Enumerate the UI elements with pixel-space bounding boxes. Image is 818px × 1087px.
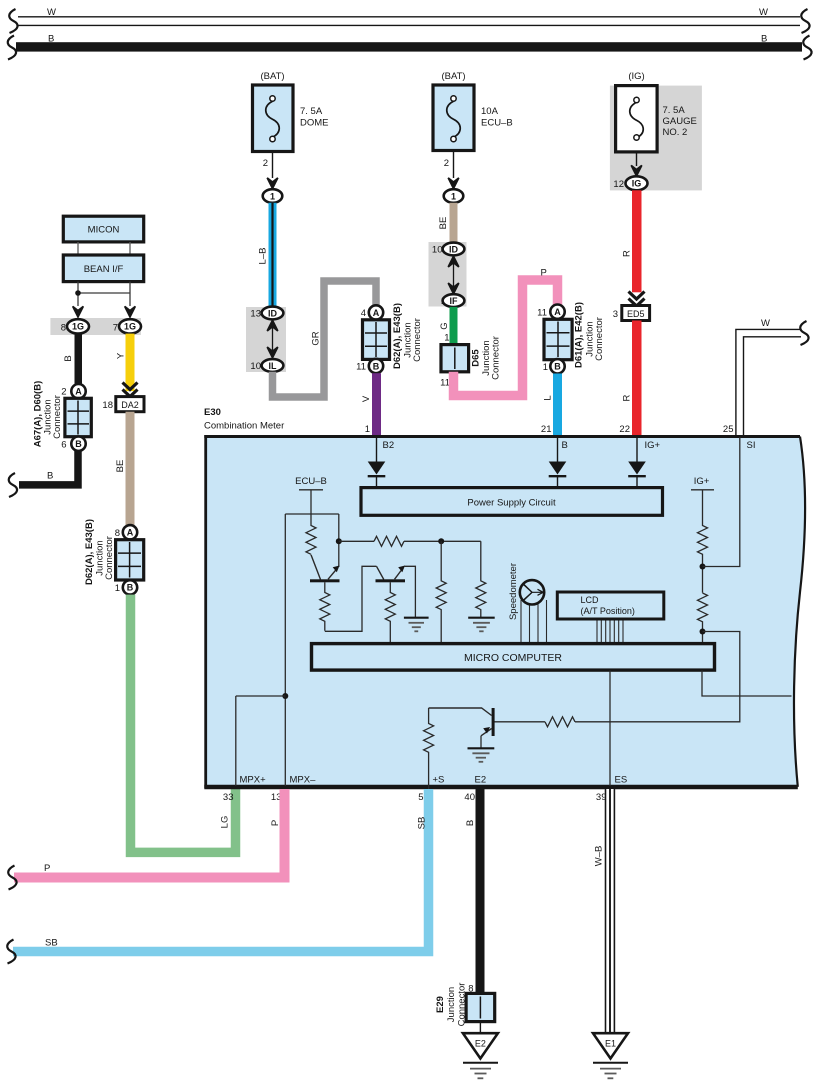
svg-text:Connector: Connector (457, 983, 468, 1027)
double arrow into ED5 (629, 292, 645, 307)
svg-text:1G: 1G (72, 322, 84, 332)
block BEAN I/F (63, 255, 143, 282)
junction connector E29 label (435, 983, 468, 1027)
svg-text:L: L (543, 395, 554, 400)
resistor R7 IG+ chain (698, 490, 708, 593)
wire P (pink) D65 to D61 (454, 280, 558, 396)
junction connector D62(A),E43(B) right box (363, 320, 390, 360)
svg-text:P: P (270, 820, 281, 826)
ground E2 hatch (463, 1063, 498, 1079)
connector ED5 box (622, 306, 650, 321)
wires MICON to BEAN I/F (78, 242, 130, 255)
svg-text:13: 13 (250, 309, 261, 320)
wire B (black) to left break (19, 451, 78, 485)
svg-text:R: R (622, 394, 633, 401)
ground E2 triangle (463, 1033, 498, 1058)
wire R (red) upper (632, 190, 642, 292)
connector pin oval ID (262, 307, 284, 320)
svg-text:7. 5A: 7. 5A (300, 106, 323, 117)
svg-text:1: 1 (365, 424, 370, 435)
svg-text:B: B (75, 439, 82, 449)
wire fuse DOME to connector 1 (272, 152, 274, 179)
svg-text:8: 8 (61, 323, 66, 334)
svg-text:33: 33 (223, 792, 234, 803)
junction connector A67(A),D60(B) box (65, 398, 91, 436)
combination meter bottom edge (204, 785, 798, 789)
svg-text:DA2: DA2 (121, 400, 139, 410)
svg-text:LCD: LCD (581, 595, 600, 605)
svg-text:E2: E2 (475, 1039, 486, 1049)
wire micro computer to torn edge (702, 670, 792, 696)
wire break squiggle W (SI wire) (800, 321, 808, 345)
junction connector D62(A),E43(B) left box (116, 540, 144, 580)
svg-text:P: P (541, 268, 547, 279)
svg-text:B: B (47, 471, 53, 482)
svg-text:GAUGE: GAUGE (663, 116, 697, 127)
wire V (violet) to pin 1 (372, 373, 381, 437)
junction connector A67(A),D60(B) label (33, 381, 64, 448)
diode D1 at B2 (368, 437, 386, 488)
svg-text:(A/T Position): (A/T Position) (581, 606, 635, 616)
svg-text:V: V (361, 395, 372, 402)
connector pin B of D62(A),E43(B) left (123, 580, 137, 594)
connector pin oval IF (443, 294, 465, 307)
svg-text:Connector: Connector (52, 395, 63, 439)
wire GR (gray) (273, 281, 377, 397)
wire B (black) 1G to A (75, 334, 83, 385)
svg-text:+S: +S (433, 775, 445, 786)
connector pin B of A67(A),D60(B) (71, 437, 85, 451)
ground G3 at Q3 emitter (468, 748, 495, 762)
wire B (black) pin 40 to E29 (476, 789, 485, 994)
arrow up into ID (448, 256, 459, 267)
svg-text:18: 18 (102, 400, 113, 411)
wire ECU-B rail horizontal (285, 513, 339, 515)
junction connector D65 label (471, 336, 502, 380)
resistor R8 IG+ chain lower (698, 593, 708, 643)
wire B bus top (16, 42, 802, 51)
combination meter top edge (204, 435, 800, 438)
transistor Q3 (429, 708, 495, 748)
resistor R6 branch to ground (476, 541, 486, 617)
svg-text:MPX+: MPX+ (240, 775, 267, 786)
svg-text:Connector: Connector (491, 336, 502, 380)
junction dot3 (700, 564, 706, 570)
svg-text:1: 1 (444, 333, 449, 344)
svg-text:2: 2 (444, 158, 449, 169)
arrow into connector 1 (448, 178, 459, 189)
diode D2 at B (549, 437, 567, 488)
svg-text:12: 12 (613, 179, 624, 190)
connector pin A of D61(A),E42(B) (550, 305, 564, 319)
wire BE (beige) (450, 203, 458, 244)
block LCD (A/T Position) (557, 592, 664, 619)
svg-text:25: 25 (723, 424, 734, 435)
junction connector D62(A),E43(B) right label (392, 303, 423, 369)
wire R9 to Q3 (495, 721, 546, 723)
svg-text:SI: SI (747, 440, 756, 451)
svg-text:A: A (75, 387, 82, 397)
connector pin A of A67(A),D60(B) (71, 384, 85, 398)
gray band junction ID/IL (246, 307, 286, 372)
svg-text:ED5: ED5 (627, 309, 645, 319)
resistor R2 below Q1 (320, 582, 330, 631)
svg-text:40: 40 (464, 792, 475, 803)
wire between ID and IL (272, 319, 274, 359)
junction dot4 (700, 629, 706, 635)
transistor Q1 (310, 555, 340, 583)
wire break squiggle W right (801, 9, 809, 33)
junction connector D65 box (441, 345, 469, 372)
svg-text:SB: SB (45, 938, 58, 949)
svg-text:E29: E29 (435, 996, 446, 1013)
wire MPX+ branch (236, 696, 285, 786)
gray band junction ID/IF (429, 242, 467, 307)
connector pin oval 1G left (67, 319, 89, 333)
speedometer gauge lines to micro computer (521, 600, 547, 644)
svg-text:A: A (373, 308, 380, 318)
svg-text:BE: BE (115, 460, 126, 473)
wire horizontal with R4 (339, 540, 374, 542)
svg-text:Junction: Junction (446, 987, 457, 1022)
wire BE (beige) DA2 to D62 (126, 412, 135, 526)
wire G (green) (450, 307, 458, 345)
svg-text:A: A (127, 528, 134, 538)
svg-text:MICON: MICON (88, 225, 120, 236)
svg-text:IG+: IG+ (645, 440, 661, 451)
wire LG (light green) to pin 33 (131, 595, 236, 853)
svg-text:R: R (622, 250, 633, 257)
svg-text:Connector: Connector (412, 318, 423, 362)
connector pin oval ID (ECU-B chain) (443, 243, 465, 256)
svg-text:B2: B2 (383, 440, 395, 451)
svg-text:3: 3 (613, 309, 618, 320)
junction dot1 (336, 538, 342, 544)
fuse GAUGE NO.2 (616, 86, 658, 152)
wire MPX- vertical (284, 514, 286, 786)
svg-text:Connector: Connector (594, 317, 605, 361)
junction dot (75, 290, 81, 296)
gray panel behind fuse GAUGE NO.2 (610, 86, 702, 191)
wire break squiggle SB (7, 940, 15, 964)
arrow into 1G left (73, 306, 84, 317)
svg-text:ID: ID (268, 308, 278, 318)
svg-text:D62(A), E43(B): D62(A), E43(B) (84, 519, 95, 585)
LCD connection lines (597, 619, 623, 644)
connector pin A of D62(A),E43(B) right (369, 305, 383, 319)
svg-text:MICRO COMPUTER: MICRO COMPUTER (464, 652, 562, 664)
wire W-B pin 39 to E1 ground (605, 789, 615, 1033)
svg-text:11: 11 (440, 378, 450, 389)
svg-text:ECU–B: ECU–B (481, 118, 513, 129)
wire W to SI pin 25 (736, 329, 801, 437)
svg-text:B: B (373, 361, 380, 371)
svg-text:B: B (761, 34, 767, 45)
connector pin B of D61(A),E42(B) (550, 359, 564, 373)
svg-text:11: 11 (356, 362, 366, 373)
svg-text:B: B (127, 583, 134, 593)
wire dot4 to Q3 base (575, 632, 740, 722)
arrow into 1G right (125, 306, 136, 317)
resistor R5 branch to MICRO COMPUTER (436, 541, 446, 643)
svg-text:1: 1 (115, 583, 120, 594)
arrow into connector 1 (267, 178, 278, 189)
fuse ECU-B 10A (433, 85, 474, 151)
svg-text:IF: IF (450, 296, 459, 306)
node IG+ internal (691, 476, 714, 490)
resistor R4 horizontal (374, 536, 404, 546)
junction dot MPX branch (282, 693, 288, 699)
combination meter left edge (204, 435, 207, 788)
wire L (blue) to pin 21 (553, 374, 562, 437)
svg-text:ID: ID (449, 244, 459, 254)
wire SB (sky blue) pin 5 to left break (13, 789, 429, 952)
ground G1 (404, 618, 429, 632)
svg-text:ES: ES (615, 775, 628, 786)
svg-text:ECU–B: ECU–B (295, 476, 327, 487)
junction connector D61(A),E42(B) label (574, 302, 606, 368)
svg-text:L–B: L–B (258, 248, 269, 265)
svg-text:BEAN I/F: BEAN I/F (84, 264, 124, 275)
wire fuse ECU-B to connector 1 (453, 151, 455, 179)
wire break squiggle B left (8, 36, 16, 60)
resistor R3 below Q2 (385, 582, 395, 643)
resistor R10 at +S (424, 708, 434, 792)
connector pin B of D62(A),E43(B) right (369, 359, 383, 373)
gray band 1G pins (50, 318, 140, 335)
svg-text:(BAT): (BAT) (441, 71, 465, 82)
wire L-B (blue-black) (269, 203, 277, 307)
svg-text:A: A (554, 307, 561, 317)
svg-text:2: 2 (263, 158, 268, 169)
wire between ID and IF (453, 255, 455, 294)
svg-text:W: W (759, 7, 768, 18)
arrow down into IL (267, 347, 278, 358)
transistor Q2 (376, 566, 406, 583)
ground E1 triangle (593, 1033, 628, 1058)
svg-text:NO. 2: NO. 2 (663, 127, 688, 138)
svg-text:Combination Meter: Combination Meter (204, 421, 284, 432)
resistor R1 (306, 514, 316, 554)
svg-text:W: W (47, 7, 56, 18)
svg-text:6: 6 (61, 439, 66, 450)
junction connector D62(A),E43(B) left label (84, 519, 115, 585)
arrow up into ID (267, 320, 278, 331)
svg-text:B: B (554, 362, 561, 372)
wire Q1 emitter to Q2 base (325, 566, 377, 631)
svg-text:4: 4 (361, 308, 366, 319)
svg-text:11: 11 (537, 308, 547, 319)
svg-text:BE: BE (438, 217, 449, 230)
wire break squiggle W left (9, 9, 17, 33)
svg-text:D65: D65 (471, 349, 482, 367)
svg-text:21: 21 (541, 424, 552, 435)
wires BEAN I/F to 1G pins (78, 282, 130, 306)
wire break squiggle B right (803, 36, 811, 60)
wire break squiggle P (8, 866, 16, 890)
wire SI internal (703, 437, 740, 567)
connector pin oval 1 (DOME) (263, 189, 283, 203)
svg-text:(IG): (IG) (628, 71, 644, 82)
svg-text:1: 1 (543, 362, 548, 373)
svg-text:10A: 10A (481, 106, 499, 117)
connector pin oval IL (262, 359, 284, 372)
wire break squiggle B left wire (9, 473, 17, 497)
block Power Supply Circuit (361, 488, 663, 516)
svg-text:P: P (44, 863, 50, 874)
junction connector D61(A),E42(B) box (544, 319, 572, 359)
svg-text:LG: LG (220, 816, 231, 829)
svg-text:GR: GR (311, 331, 322, 345)
node ECU-B (295, 476, 327, 514)
svg-text:Y: Y (116, 352, 127, 359)
wire Y (yellow) (126, 334, 135, 392)
connector pin oval 1 (ECU-B) (444, 189, 464, 203)
svg-text:B: B (562, 440, 568, 451)
svg-text:1: 1 (451, 192, 456, 202)
wire ES vertical (609, 670, 611, 786)
svg-text:B: B (48, 34, 54, 45)
connector pin oval IG (626, 176, 648, 190)
svg-text:22: 22 (619, 424, 630, 435)
svg-text:7. 5A: 7. 5A (663, 105, 686, 116)
wire W bus top (18, 17, 800, 26)
svg-text:E1: E1 (605, 1039, 616, 1049)
svg-text:D61(A), E42(B): D61(A), E42(B) (574, 302, 585, 368)
svg-text:7: 7 (113, 323, 118, 334)
svg-text:IG: IG (632, 179, 642, 189)
diode D3 at IG+ (628, 437, 646, 488)
ground G2 (468, 618, 495, 632)
wire fuse GAUGE to IG connector (636, 152, 638, 166)
speedometer symbol (520, 580, 544, 604)
svg-text:(BAT): (BAT) (260, 71, 284, 82)
svg-text:Power Supply Circuit: Power Supply Circuit (467, 498, 556, 509)
svg-text:8: 8 (115, 528, 120, 539)
wire P (pink) pin 13 to left break (14, 789, 285, 878)
svg-text:W: W (761, 318, 770, 329)
svg-text:1G: 1G (124, 322, 136, 332)
svg-text:B: B (465, 820, 476, 826)
svg-text:SB: SB (417, 817, 428, 830)
svg-text:G: G (439, 322, 450, 329)
svg-text:Connector: Connector (104, 536, 115, 580)
svg-text:Speedometer: Speedometer (508, 563, 519, 620)
block MICON (63, 216, 143, 242)
arrow into IG connector (631, 165, 642, 176)
wire R (red) lower to pin 22 (632, 321, 642, 437)
combination meter E30 body (206, 437, 806, 787)
svg-text:E30: E30 (204, 407, 221, 418)
wire dot1 branch vertical (338, 514, 340, 567)
arrow down into IF (448, 283, 459, 294)
junction dot2 (438, 538, 444, 544)
wire Q2 collector to ground (404, 566, 415, 617)
connector pin A of D62(A),E43(B) left (123, 525, 137, 539)
fuse DOME 7.5A (253, 85, 294, 152)
wire R4 to right branch (404, 540, 481, 542)
svg-text:MPX–: MPX– (290, 775, 317, 786)
junction connector E29 box (466, 993, 495, 1021)
svg-text:B: B (63, 355, 74, 361)
ground E1 hatch (593, 1063, 628, 1079)
block MICRO COMPUTER (312, 644, 715, 671)
svg-text:10: 10 (250, 361, 261, 372)
svg-text:DOME: DOME (300, 118, 329, 129)
svg-text:D62(A), E43(B): D62(A), E43(B) (392, 303, 403, 369)
resistor R9 horizontal at Q3 base (545, 717, 575, 727)
wire E29 to E2 ground (479, 1022, 481, 1033)
svg-text:1: 1 (270, 192, 275, 202)
connector DA2 box (116, 397, 144, 412)
svg-text:IG+: IG+ (694, 476, 710, 487)
svg-text:E2: E2 (475, 775, 487, 786)
svg-text:10: 10 (432, 245, 443, 256)
connector pin oval 1G right (119, 319, 141, 333)
svg-text:5: 5 (418, 792, 423, 803)
svg-text:W–B: W–B (594, 846, 605, 867)
double arrow into DA2 (123, 383, 138, 397)
svg-text:IL: IL (269, 361, 278, 371)
combination meter torn right edge (794, 437, 805, 787)
